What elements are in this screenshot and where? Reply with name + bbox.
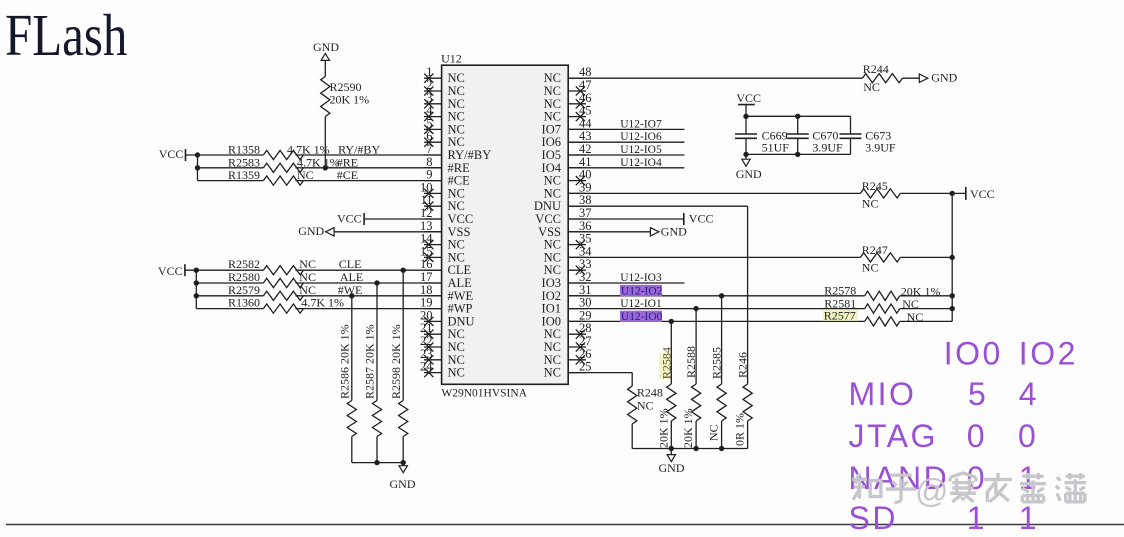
junction dot (696.1, IO1) [693, 306, 698, 311]
svg-text:W29N01HVSINA: W29N01HVSINA [441, 388, 527, 400]
svg-text:NC: NC [862, 196, 879, 210]
U12 right pin 39 (NC) [544, 180, 592, 200]
junction dot (671.3, IO0) [669, 319, 674, 324]
U12 left pin 19 (#WP) [420, 296, 473, 316]
wire U12-IO6 net [568, 141, 684, 143]
svg-text:U12-IO6: U12-IO6 [620, 131, 662, 143]
svg-text:R2577: R2577 [824, 308, 856, 322]
resistor R245 NC [860, 179, 900, 211]
resistor R247 NC [860, 243, 900, 275]
wire R2587 bottom [376, 437, 378, 463]
svg-text:MIO: MIO [849, 376, 917, 412]
svg-text:U12: U12 [441, 52, 462, 66]
wire R245 to VCC [900, 192, 965, 194]
svg-text:@: @ [915, 472, 949, 509]
svg-text:SD: SD [849, 500, 898, 536]
resistor R2590 20K 1% [321, 77, 369, 117]
U12 left pin 13 (VSS) [420, 219, 470, 239]
junction dot (196.3, ALE) [194, 280, 199, 285]
wire #WP net (to pin 19) [196, 308, 441, 310]
svg-text:R2585: R2585 [710, 347, 724, 379]
U12 left pin 16 (CLE) [420, 257, 471, 277]
IC U12 W29N01HVSINA body [442, 65, 569, 384]
wire R2585 bottom [721, 421, 723, 449]
svg-text:20K 1%: 20K 1% [681, 408, 695, 448]
wire GND to R2590 [324, 60, 326, 76]
svg-text:4.7K 1%: 4.7K 1% [301, 296, 344, 310]
wire U12-IO2 net (pin 31 to R2578) [568, 295, 952, 297]
resistor R2587 20K 1% [363, 324, 382, 436]
U12 right pin 47 (NC) [544, 78, 592, 98]
svg-text:JTAG: JTAG [849, 418, 938, 454]
svg-text:U12-IO5: U12-IO5 [620, 144, 662, 156]
svg-text:GND: GND [659, 461, 685, 475]
junction dot (721.6, IO2) [719, 293, 724, 298]
resistor R2598 20K 1% [389, 324, 408, 436]
U12 left pin 3 (NC) [424, 91, 465, 111]
svg-text:VCC: VCC [158, 264, 183, 278]
resistor R2586 20K 1% [338, 324, 357, 436]
ground symbol GND (right pulldowns) [659, 449, 685, 476]
U12 left pin 12 (VCC) [420, 206, 473, 226]
resistor R1358 4.7K 1% (RY/#BY) [228, 143, 330, 160]
svg-text:IO2: IO2 [1019, 336, 1078, 372]
wire ground bus (right pulldowns) [632, 448, 747, 450]
wire U12-IO4 net [568, 167, 684, 169]
resistor R248 NC [628, 386, 663, 425]
svg-text:20K 1%: 20K 1% [330, 93, 370, 107]
wire ground bus (left pulldowns) [352, 462, 403, 464]
svg-text:VCC: VCC [736, 91, 761, 105]
wire VCC feed vertical (group A) [197, 155, 199, 181]
wire #RE net (to pin 8) [198, 167, 442, 169]
wire cap top rail [746, 115, 851, 117]
ground symbol GND (left pulldowns) [390, 463, 416, 491]
power symbol VCC (decoupling caps) [736, 91, 761, 116]
svg-text:U12-IO1: U12-IO1 [620, 298, 662, 310]
wire U12-IO7 net [568, 128, 684, 130]
U12 left pin 14 (NC) [420, 232, 465, 252]
resistor R2581 NC [824, 296, 919, 313]
svg-text:VCC: VCC [970, 187, 995, 201]
resistor R2579 NC (#WE) [228, 283, 316, 301]
U12 right pin 31 (IO2) [542, 283, 592, 303]
U12 right pin 29 (IO0) [542, 308, 592, 328]
U12 right pin 35 (NC) [544, 232, 592, 252]
net label U12-IO2 (highlighted) [620, 285, 663, 297]
wire R248 bottom [631, 424, 633, 449]
ground symbol GND (top, R2590) [313, 40, 339, 60]
U12 left pin 17 (ALE) [420, 270, 472, 290]
U12 right pin 41 (IO4) [542, 155, 592, 175]
wire R2584 top (IO0 tap) [670, 321, 672, 384]
svg-text:NC: NC [544, 366, 561, 380]
wire pin 37 to VCC [568, 218, 684, 220]
wire R2590 to #RE net [324, 117, 326, 168]
U12 right pin 26 (NC) [544, 347, 592, 367]
junction dot (403.2, gnd bus) [401, 460, 406, 465]
junction dot (377, gnd bus) [374, 460, 379, 465]
svg-text:U12-IO4: U12-IO4 [620, 157, 662, 169]
wire R2585 top (IO2 tap) [721, 296, 723, 384]
annotation row MIO 5 4 [849, 376, 1040, 412]
resistor R2578 20K 1% [824, 284, 940, 301]
wire pin 48 to R244 [568, 77, 862, 79]
U12 right pin 38 (DNU) [534, 193, 592, 213]
U12 left pin 6 (NC) [424, 129, 465, 149]
svg-text:NC: NC [637, 399, 654, 413]
wire VCC to pin 12 [364, 218, 442, 220]
resistor R246 0R 1% [733, 352, 753, 446]
wire #WE net (to pin 18) [196, 295, 441, 297]
wire pin 34 to R247 [568, 256, 860, 258]
wire R2586 top (#WE tap) [351, 296, 353, 401]
junction dot (196.3, CLE) [194, 268, 199, 273]
wire pin 36 to GND [568, 231, 650, 233]
wire R2598 bottom [402, 437, 404, 463]
capacitor C670 3.9UF [787, 116, 843, 154]
svg-text:GND: GND [931, 71, 957, 85]
svg-text:NC: NC [448, 366, 465, 380]
U12 left pin 20 (DNU) [420, 308, 475, 328]
junction dot (952.2, IO2) [950, 293, 955, 298]
wire U12-IO3 net [568, 282, 684, 284]
U12 left pin 10 (NC) [420, 180, 465, 200]
wire GND to pin 13 [334, 231, 442, 233]
wire R2584 bottom [670, 421, 672, 449]
power symbol VCC (pin 37) [684, 212, 714, 226]
svg-text:R244: R244 [863, 62, 889, 76]
junction dot (797.7, cap top rail) [795, 114, 800, 119]
svg-text:1: 1 [967, 500, 987, 536]
U12 right pin 42 (IO5) [542, 142, 592, 162]
resistor R2588 20K 1% [681, 346, 701, 448]
svg-text:U12-IO3: U12-IO3 [620, 272, 662, 284]
U12 left pin 15 (NC) [420, 244, 465, 264]
junction dot (377, ALE) [374, 280, 379, 285]
power symbol VCC (left, RY/#BY group) [159, 147, 186, 161]
svg-text:VCC: VCC [689, 212, 714, 226]
U12 left pin 8 (#RE) [424, 155, 470, 175]
U12 right pin 33 (NC) [544, 257, 592, 277]
svg-text:R2598 20K 1%: R2598 20K 1% [389, 324, 403, 399]
wire #CE net (to pin 9) [198, 180, 442, 182]
U12 right pin 30 (IO1) [542, 296, 592, 316]
ground symbol GND (pin 36) [650, 224, 687, 238]
U12 left pin 22 (NC) [420, 334, 465, 354]
svg-text:U12-IO2: U12-IO2 [621, 285, 663, 297]
resistor R1359 NC (#CE) [228, 168, 314, 185]
junction dot (325.3, #RE) [323, 165, 328, 170]
U12 left pin 9 (#CE) [424, 168, 470, 188]
wire U12-IO5 net [568, 154, 684, 156]
wire R244 to GND [902, 77, 919, 79]
svg-text:FLash: FLash [5, 3, 127, 68]
svg-text:5: 5 [968, 376, 988, 412]
watermark zhihu @hanyixiaoxiao [852, 472, 1086, 509]
resistor R244 NC [862, 62, 902, 94]
svg-text:R2587 20K 1%: R2587 20K 1% [363, 324, 377, 399]
svg-text:R247: R247 [862, 243, 888, 257]
U12 left pin 23 (NC) [420, 347, 465, 367]
U12 left pin 4 (NC) [424, 104, 465, 124]
annotation row JTAG 0 0 [849, 418, 1039, 454]
resistor R2585 NC [707, 347, 727, 441]
U12 right pin 40 (NC) [544, 168, 592, 188]
wire R247 to VCC rail [900, 256, 952, 258]
svg-text:1: 1 [1019, 500, 1039, 536]
wire R2588 bottom [695, 421, 697, 449]
annotation row SD 1 1 [849, 500, 1040, 536]
U12 right pin 34 (NC) [544, 244, 593, 264]
junction dot (952.2, IO1) [950, 306, 955, 311]
U12 left pin 11 (NC) [420, 193, 464, 213]
wire CLE net (VCC to pin 16) [185, 269, 442, 271]
U12 left pin 1 (NC) [424, 65, 465, 85]
svg-text:R245: R245 [862, 179, 888, 193]
resistor R2580 NC (ALE) [228, 270, 316, 288]
svg-text:NC: NC [907, 310, 924, 324]
wire ALE net (to pin 17) [196, 282, 441, 284]
U12 right pin 46 (NC) [544, 91, 592, 111]
svg-text:0R 1%: 0R 1% [733, 413, 747, 446]
annotation table header IO0 IO2 [944, 336, 1078, 372]
svg-text:R2586 20K 1%: R2586 20K 1% [338, 324, 352, 399]
resistor R2577 NC (highlighted) [823, 308, 924, 326]
wire U12-IO1 net (pin 30 to R2581) [568, 308, 952, 310]
junction dot (403.2, CLE) [401, 268, 406, 273]
svg-text:20K 1%: 20K 1% [656, 408, 670, 448]
svg-text:R1359: R1359 [228, 168, 260, 182]
svg-text:0: 0 [1018, 418, 1038, 454]
U12 left pin 2 (NC) [424, 78, 465, 98]
svg-text:GND: GND [298, 224, 324, 238]
svg-text:U12-IO7: U12-IO7 [620, 118, 662, 130]
junction dot (797.7, cap bottom rail) [795, 152, 800, 157]
junction dot (351.8, #WE) [349, 293, 354, 298]
svg-text:NC: NC [862, 260, 879, 274]
svg-text:U12-IO0: U12-IO0 [621, 311, 663, 323]
svg-text:3.9UF: 3.9UF [812, 141, 843, 155]
svg-text:VCC: VCC [159, 147, 184, 161]
junction dot (746, cap top rail) [743, 114, 748, 119]
svg-text:R2584: R2584 [659, 347, 673, 379]
svg-text:4: 4 [1019, 376, 1039, 412]
resistor R2584 20K 1% (highlighted label) [656, 347, 676, 448]
junction dot (196.3, #WE) [194, 293, 199, 298]
U12 right pin 43 (IO6) [542, 129, 592, 149]
svg-text:24: 24 [420, 360, 433, 374]
resistor R1360 4.7K 1% (#WP) [228, 296, 344, 314]
ground symbol GND (R244) [919, 71, 957, 85]
svg-text:25: 25 [579, 360, 592, 374]
U12 right pin 45 (NC) [544, 104, 592, 124]
power symbol VCC (left, CLE group) [158, 264, 185, 278]
capacitor C669 51UF [735, 116, 789, 154]
U12 right pin 48 (NC) [544, 65, 592, 85]
U12 right pin 44 (IO7) [542, 116, 593, 136]
wire pin 39 to R245 [568, 192, 860, 194]
svg-text:#CE: #CE [337, 168, 358, 182]
wire cap bottom rail [746, 153, 851, 155]
svg-text:R248: R248 [637, 386, 663, 400]
wire pin 38 DNU net [568, 206, 747, 384]
resistor R2583 4.7K 1% (#RE) [228, 155, 340, 172]
svg-text:VCC: VCC [337, 212, 362, 226]
wire VCC feed vertical (group B) [195, 270, 197, 308]
ground symbol GND (pin 13) [298, 224, 334, 238]
svg-text:NC: NC [863, 80, 880, 94]
svg-text:3.9UF: 3.9UF [865, 141, 896, 155]
junction dot (197.5, RY/#BY) [195, 152, 200, 157]
svg-text:R246: R246 [736, 352, 750, 378]
junction dot (952.2, R245) [950, 191, 955, 196]
svg-text:R2588: R2588 [684, 346, 698, 378]
wire U12-IO0 net (pin 29 to R2577) [568, 320, 952, 322]
wire R2587 top (ALE tap) [376, 283, 378, 401]
U12 right pin 36 (VSS) [538, 219, 591, 239]
svg-text:R1360: R1360 [228, 296, 260, 310]
annotation row NAND 0 1 [849, 460, 1040, 496]
junction dot (721.6, gnd bus) [719, 446, 724, 451]
sheet border line [6, 524, 1124, 526]
svg-text:IO0: IO0 [944, 336, 1003, 372]
junction dot (671.3, gnd bus) [669, 446, 674, 451]
U12 right pin 32 (IO3) [542, 270, 592, 290]
U12 right pin 27 (NC) [544, 334, 592, 354]
wire RY/#BY net (VCC to pin 7) [186, 154, 442, 156]
U12 right pin 37 (VCC) [535, 206, 591, 226]
wire VCC rail vertical (right) [951, 193, 953, 321]
svg-text:GND: GND [736, 167, 762, 181]
ground symbol GND (decoupling caps) [736, 154, 762, 181]
junction dot (197.5, #RE) [195, 165, 200, 170]
wire R2598 top (CLE tap) [402, 270, 404, 400]
svg-text:51UF: 51UF [762, 141, 790, 155]
junction dot (952.2, R247) [950, 255, 955, 260]
U12 left pin 5 (NC) [424, 116, 465, 136]
U12 left pin 24 (NC) [420, 360, 465, 380]
wire R2586 bottom [351, 437, 353, 463]
resistor R2582 NC (CLE) [228, 257, 316, 275]
svg-text:NC: NC [707, 424, 721, 441]
junction dot (746, cap bottom rail) [743, 152, 748, 157]
wire pin 25 to R248 [568, 373, 632, 386]
U12 right pin 28 (NC) [544, 321, 592, 341]
wire R246 bottom [747, 421, 749, 449]
U12 left pin 21 (NC) [420, 321, 465, 341]
net label U12-IO0 (highlighted) [620, 311, 663, 323]
svg-text:GND: GND [661, 224, 687, 238]
svg-text:GND: GND [313, 40, 339, 54]
svg-text:GND: GND [390, 477, 416, 491]
svg-text:NC: NC [297, 168, 314, 182]
capacitor C673 3.9UF [840, 116, 896, 154]
U12 right pin 25 (NC) [544, 360, 592, 380]
power symbol VCC (right rail) [966, 187, 995, 201]
junction dot (696.1, gnd bus) [693, 446, 698, 451]
U12 left pin 7 (RY/#BY) [424, 142, 491, 162]
svg-text:0: 0 [967, 418, 987, 454]
power symbol VCC (pin 12) [337, 212, 364, 226]
wire R2588 top (IO1 tap) [695, 309, 697, 384]
U12 left pin 18 (#WE) [420, 283, 474, 303]
